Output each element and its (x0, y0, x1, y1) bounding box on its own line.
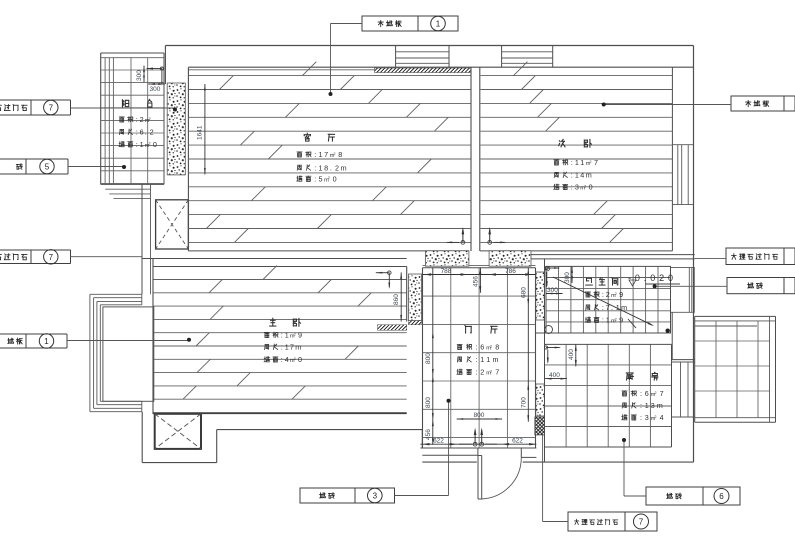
svg-text:300: 300 (136, 70, 143, 81)
svg-text:m: m (295, 343, 301, 352)
svg-text:m: m (341, 163, 347, 172)
svg-text::: : (475, 368, 477, 377)
svg-text:2: 2 (140, 115, 144, 124)
svg-text:300: 300 (150, 86, 161, 93)
svg-text:400: 400 (549, 372, 560, 379)
svg-text::: : (281, 331, 283, 340)
svg-text::: : (314, 174, 316, 183)
svg-text:788: 788 (441, 268, 452, 275)
svg-text::: : (640, 413, 642, 422)
svg-text:860: 860 (393, 294, 400, 305)
svg-text:2: 2 (294, 357, 296, 361)
svg-text:7: 7 (324, 150, 328, 159)
svg-text:456: 456 (425, 429, 432, 440)
svg-text:8: 8 (338, 150, 342, 159)
svg-text:2: 2 (606, 290, 610, 299)
svg-text:1: 1 (319, 163, 323, 172)
svg-text:1: 1 (285, 331, 289, 340)
svg-text:7: 7 (495, 368, 499, 377)
svg-text:2: 2 (150, 128, 154, 137)
svg-text::: : (136, 115, 138, 124)
svg-text:1: 1 (575, 171, 579, 180)
svg-text:1: 1 (606, 316, 610, 325)
svg-text:6: 6 (645, 389, 649, 398)
svg-text::: : (602, 303, 604, 312)
svg-text:800: 800 (425, 397, 432, 408)
svg-text:4: 4 (285, 355, 289, 364)
svg-text:3: 3 (575, 183, 579, 192)
svg-text:5: 5 (45, 163, 50, 172)
svg-text:7: 7 (660, 389, 664, 398)
svg-text:m: m (586, 171, 592, 180)
svg-text:3: 3 (651, 401, 655, 410)
svg-text:1: 1 (44, 337, 49, 346)
svg-text:6: 6 (480, 343, 484, 352)
svg-text:2: 2 (294, 332, 296, 336)
svg-text:7: 7 (49, 253, 54, 262)
svg-text:9: 9 (298, 331, 302, 340)
svg-text::: : (314, 163, 316, 172)
svg-text:m: m (493, 355, 499, 364)
svg-text:m: m (657, 401, 663, 410)
svg-text::: : (136, 128, 138, 137)
svg-text::: : (602, 290, 604, 299)
svg-text:8: 8 (324, 163, 328, 172)
svg-text:1: 1 (575, 158, 579, 167)
svg-text:1: 1 (480, 355, 484, 364)
svg-text:.: . (330, 163, 332, 172)
svg-text:2: 2 (490, 344, 492, 348)
svg-text::: : (281, 355, 283, 364)
svg-text::: : (640, 401, 642, 410)
svg-text:6: 6 (719, 492, 724, 501)
svg-text:1: 1 (319, 150, 323, 159)
svg-text:7: 7 (594, 158, 598, 167)
svg-text:800: 800 (474, 412, 485, 419)
svg-text:.: . (611, 303, 613, 312)
svg-text::: : (136, 140, 138, 149)
svg-text:6: 6 (140, 128, 144, 137)
svg-text:2: 2 (335, 163, 339, 172)
svg-text:m: m (621, 303, 627, 312)
svg-text:800: 800 (425, 353, 432, 364)
svg-text:5: 5 (319, 174, 323, 183)
svg-text::: : (281, 343, 283, 352)
svg-text:1: 1 (140, 140, 144, 149)
svg-text:456: 456 (473, 276, 480, 287)
svg-text:300: 300 (547, 287, 558, 294)
svg-text:9: 9 (619, 316, 623, 325)
svg-text::: : (571, 171, 573, 180)
svg-text:2: 2 (615, 292, 617, 296)
svg-text:8: 8 (495, 343, 499, 352)
svg-text:1641: 1641 (197, 125, 204, 140)
svg-text:1: 1 (486, 355, 490, 364)
svg-text:1: 1 (285, 343, 289, 352)
svg-text:3: 3 (645, 413, 649, 422)
svg-text::: : (640, 389, 642, 398)
svg-text:1: 1 (436, 20, 441, 29)
svg-text:1: 1 (580, 158, 584, 167)
svg-text:2: 2 (655, 415, 657, 419)
svg-text:680: 680 (521, 287, 528, 298)
svg-text:2: 2 (490, 369, 492, 373)
svg-text:2: 2 (149, 117, 151, 121)
svg-text:400: 400 (568, 349, 575, 360)
svg-text:2: 2 (328, 176, 330, 180)
svg-text:7: 7 (49, 104, 54, 113)
svg-text:2: 2 (334, 152, 336, 156)
svg-text:7: 7 (606, 303, 610, 312)
svg-text:0: 0 (589, 183, 593, 192)
svg-text:2: 2 (655, 391, 657, 395)
svg-text:2: 2 (590, 160, 592, 164)
svg-text:9: 9 (619, 290, 623, 299)
svg-text:7: 7 (290, 343, 294, 352)
svg-text:2: 2 (584, 184, 586, 188)
svg-text::: : (602, 316, 604, 325)
svg-text:622: 622 (433, 438, 444, 445)
svg-text:786: 786 (505, 268, 516, 275)
svg-text:0: 0 (333, 174, 337, 183)
svg-text:3: 3 (373, 492, 378, 501)
svg-text:4: 4 (580, 171, 584, 180)
svg-text:0: 0 (298, 355, 302, 364)
svg-text:300: 300 (564, 272, 571, 283)
svg-text::: : (571, 158, 573, 167)
svg-text::: : (314, 150, 316, 159)
svg-text:7: 7 (639, 518, 644, 527)
svg-text::: : (571, 183, 573, 192)
svg-text:2: 2 (149, 142, 151, 146)
svg-text:1: 1 (645, 401, 649, 410)
svg-text::: : (475, 355, 477, 364)
svg-text:2: 2 (615, 317, 617, 321)
svg-text:4: 4 (660, 413, 664, 422)
svg-text:700: 700 (521, 397, 528, 408)
svg-text:0: 0 (153, 140, 157, 149)
svg-text:1: 1 (616, 303, 620, 312)
svg-text:2: 2 (480, 368, 484, 377)
svg-text::: : (475, 343, 477, 352)
svg-text:.: . (145, 128, 147, 137)
svg-text:622: 622 (512, 438, 523, 445)
